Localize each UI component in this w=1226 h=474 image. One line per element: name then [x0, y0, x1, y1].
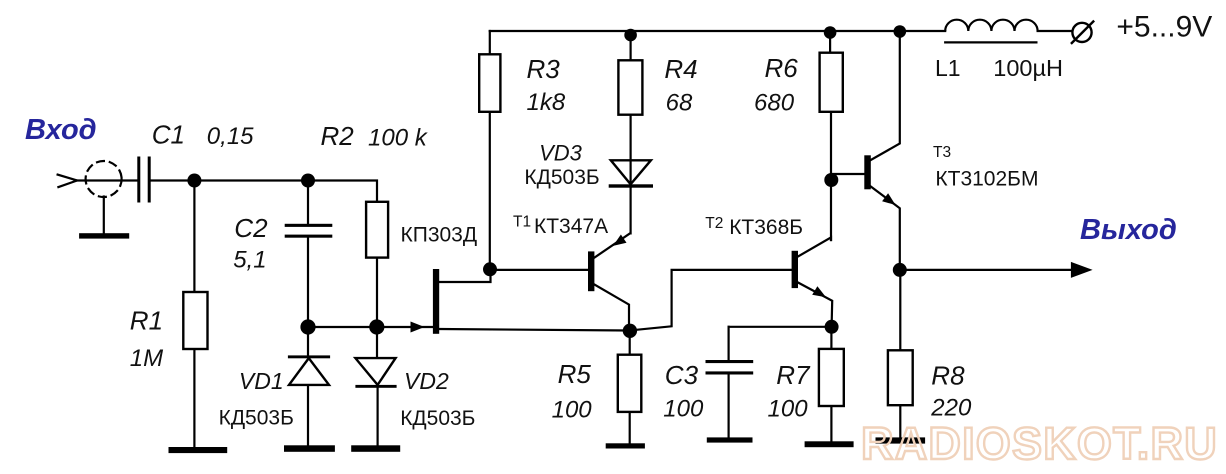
- svg-text:Т3: Т3: [933, 144, 951, 161]
- svg-text:100µH: 100µH: [993, 55, 1063, 81]
- svg-text:0,15: 0,15: [207, 123, 254, 150]
- svg-text:VD2: VD2: [404, 368, 449, 394]
- svg-text:C1: C1: [152, 120, 185, 150]
- svg-text:RADIOSKOT.RU: RADIOSKOT.RU: [861, 418, 1218, 469]
- svg-text:КТ347А: КТ347А: [534, 215, 608, 238]
- svg-text:R1: R1: [130, 305, 163, 335]
- svg-text:100 k: 100 k: [368, 125, 429, 152]
- svg-text:68: 68: [666, 90, 693, 117]
- svg-text:L1: L1: [935, 55, 961, 81]
- svg-text:R5: R5: [558, 359, 592, 389]
- svg-text:R4: R4: [664, 54, 697, 84]
- svg-text:1M: 1M: [130, 345, 163, 372]
- svg-text:VD3: VD3: [539, 140, 583, 165]
- svg-text:C2: C2: [234, 213, 268, 243]
- svg-text:Вход: Вход: [25, 114, 97, 146]
- svg-text:Т1: Т1: [513, 214, 531, 231]
- svg-text:КД503Б: КД503Б: [524, 166, 599, 189]
- svg-text:КП303Д: КП303Д: [401, 224, 478, 247]
- svg-text:Выход: Выход: [1080, 214, 1177, 246]
- svg-text:КД503Б: КД503Б: [219, 406, 294, 429]
- svg-text:R3: R3: [527, 54, 561, 84]
- svg-text:R7: R7: [776, 360, 811, 390]
- svg-text:R6: R6: [765, 53, 799, 83]
- svg-text:КД503Б: КД503Б: [400, 407, 475, 430]
- svg-text:R2: R2: [321, 121, 355, 151]
- svg-text:КТ3102БМ: КТ3102БМ: [935, 167, 1038, 190]
- svg-text:R8: R8: [931, 361, 965, 391]
- svg-text:680: 680: [754, 90, 795, 117]
- svg-text:100: 100: [552, 396, 593, 423]
- svg-text:100: 100: [768, 395, 809, 422]
- svg-text:Т2: Т2: [705, 215, 723, 232]
- svg-text:100: 100: [663, 395, 704, 422]
- svg-text:1k8: 1k8: [527, 89, 566, 116]
- svg-text:КТ368Б: КТ368Б: [729, 216, 803, 239]
- svg-text:5,1: 5,1: [233, 247, 266, 274]
- svg-text:C3: C3: [665, 360, 699, 390]
- svg-text:VD1: VD1: [239, 368, 284, 394]
- svg-text:+5...9V: +5...9V: [1116, 10, 1212, 43]
